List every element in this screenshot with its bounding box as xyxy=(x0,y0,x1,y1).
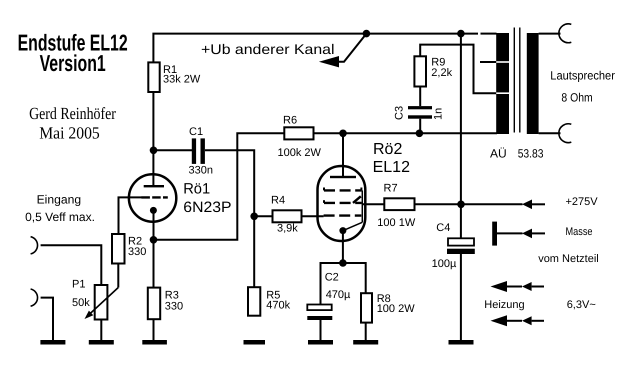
ground C2 xyxy=(308,340,333,345)
triode U Roe1 xyxy=(129,174,232,221)
wire input 2 to ground xyxy=(41,298,53,341)
author xyxy=(29,104,116,142)
node +Ub branch xyxy=(363,30,371,38)
capacitor C2 xyxy=(307,272,351,321)
svg-text:R7: R7 xyxy=(384,183,398,195)
svg-text:Mai 2005: Mai 2005 xyxy=(39,123,100,142)
node +275V supply xyxy=(457,201,465,209)
wire Roe2 cathode down xyxy=(342,233,344,263)
svg-text:6,3V~: 6,3V~ xyxy=(567,299,596,311)
svg-text:Heizung: Heizung xyxy=(484,299,524,311)
wire supply vertical xyxy=(460,34,462,239)
svg-text:50k: 50k xyxy=(72,297,90,309)
svg-text:2,2k: 2,2k xyxy=(431,67,452,79)
heater arrows row 1 xyxy=(491,281,545,292)
potentiometer P1 xyxy=(72,278,118,319)
svg-text:1n: 1n xyxy=(433,108,445,120)
svg-text:+275V: +275V xyxy=(566,196,599,208)
svg-text:C1: C1 xyxy=(189,126,203,138)
svg-text:Gerd Reinhöfer: Gerd Reinhöfer xyxy=(29,104,116,123)
wire R2 bottom to wiper xyxy=(117,264,119,288)
svg-text:3,9k: 3,9k xyxy=(277,223,298,235)
wire C1 to R4/R5 node xyxy=(205,150,254,216)
resistor R6 xyxy=(278,115,322,160)
wire C2 to ground xyxy=(320,320,322,341)
wire R7 to supply node xyxy=(415,203,462,205)
svg-text:330n: 330n xyxy=(189,165,213,177)
wire R6 to Roe2 plate net and transformer xyxy=(314,132,498,134)
node R6 plate net xyxy=(339,130,347,138)
capacitor C1 xyxy=(189,126,213,177)
wire Roe1 plate drop xyxy=(152,150,154,186)
resistor R7 xyxy=(377,183,416,229)
svg-text:C2: C2 xyxy=(325,272,339,284)
svg-text:P1: P1 xyxy=(72,278,85,290)
svg-text:+Ub anderer Kanal: +Ub anderer Kanal xyxy=(201,41,335,57)
svg-text:100 1W: 100 1W xyxy=(377,217,416,229)
wire R3 to ground xyxy=(153,319,155,341)
svg-text:Eingang: Eingang xyxy=(37,193,81,207)
speaker terminal bottom xyxy=(559,124,571,143)
node Roe1 cathode xyxy=(150,236,158,244)
wire Masse bar to arrow xyxy=(497,232,523,234)
wire cathode feedback link to R6 xyxy=(154,133,285,240)
svg-text:Lautsprecher: Lautsprecher xyxy=(550,68,615,82)
wire R9 bottom to C3 xyxy=(419,87,421,107)
svg-text:330: 330 xyxy=(165,300,183,312)
wire node to R4 xyxy=(254,215,272,217)
wire R1 bottom to plate node xyxy=(152,92,154,150)
speaker label xyxy=(550,68,615,104)
svg-text:100 2W: 100 2W xyxy=(377,303,416,315)
svg-text:Version1: Version1 xyxy=(40,50,106,76)
transformer label xyxy=(490,146,544,160)
wire P1 to ground xyxy=(100,320,102,342)
wire C3 to plate net xyxy=(419,119,421,134)
svg-text:6N23P: 6N23P xyxy=(183,199,231,216)
node R4/R5 grid net xyxy=(250,213,258,221)
arrow Masse xyxy=(522,229,532,239)
svg-text:R4: R4 xyxy=(271,194,285,206)
resistor R2 xyxy=(112,234,146,264)
wire supply node to +275V arrow xyxy=(461,203,523,205)
wire +275V tail xyxy=(532,203,546,205)
wire plate node to C1 xyxy=(153,149,192,151)
capacitor C4 xyxy=(432,222,475,270)
svg-text:8 Ohm: 8 Ohm xyxy=(561,91,592,105)
svg-text:Rö2: Rö2 xyxy=(373,141,402,158)
node supply top xyxy=(457,30,465,38)
svg-text:470k: 470k xyxy=(266,300,290,312)
resistor R5 xyxy=(248,287,291,316)
arrow +Ub anderer Kanal xyxy=(319,56,339,67)
wire g2 to R7 xyxy=(362,203,384,205)
svg-text:Rö1: Rö1 xyxy=(183,181,210,198)
wire secondary top to speaker xyxy=(539,33,561,35)
transformer core xyxy=(514,28,520,133)
svg-text:0,5 Veff max.: 0,5 Veff max. xyxy=(25,210,95,224)
ground C4 xyxy=(449,340,474,345)
node plate junction xyxy=(150,147,158,155)
wire R4 to Roe2 grid xyxy=(302,215,324,217)
ground P1 xyxy=(89,340,114,345)
svg-text:470µ: 470µ xyxy=(326,289,351,301)
ground R5 xyxy=(244,340,266,345)
input terminal 2 xyxy=(31,289,38,306)
wire Roe2 plate drop xyxy=(342,133,344,177)
capacitor C3 xyxy=(393,106,444,120)
resistor R1 xyxy=(148,62,201,92)
wire cathode node to C2 xyxy=(321,263,343,305)
speaker terminal top xyxy=(559,24,571,43)
resistor R8 xyxy=(361,293,415,323)
wire secondary bottom to speaker xyxy=(539,132,561,134)
svg-text:Masse: Masse xyxy=(566,226,593,238)
wire R8 to ground xyxy=(365,323,367,341)
ground R3 xyxy=(142,340,167,345)
wire transformer stub xyxy=(480,61,497,63)
ground R8 xyxy=(353,340,378,345)
svg-text:100k 2W: 100k 2W xyxy=(278,147,322,159)
svg-text:53.83: 53.83 xyxy=(518,146,544,160)
wire R4/R5 node down to R5 xyxy=(253,216,255,287)
wire cathode node to R8 xyxy=(343,263,366,293)
svg-text:R6: R6 xyxy=(283,115,297,127)
svg-text:C4: C4 xyxy=(436,222,450,234)
resistor R4 xyxy=(271,194,302,234)
pentode U Roe2 xyxy=(318,141,411,241)
transformer AUe primary bar xyxy=(496,33,509,134)
transformer secondary bar xyxy=(527,33,539,134)
wire top +Ub rail xyxy=(153,34,496,63)
svg-text:vom Netzteil: vom Netzteil xyxy=(538,253,599,265)
node Roe2 cathode net xyxy=(339,259,347,267)
wire input 1 to P1 xyxy=(41,245,102,285)
resistor R3 xyxy=(148,288,183,320)
wire Roe1 cathode xyxy=(153,212,155,288)
input terminal 1 xyxy=(31,237,38,254)
input label xyxy=(25,193,95,224)
svg-text:EL12: EL12 xyxy=(373,159,410,176)
node C3 plate net xyxy=(416,130,424,138)
wire Roe1 grid xyxy=(119,197,142,234)
svg-text:100µ: 100µ xyxy=(432,258,457,270)
resistor R9 xyxy=(414,56,452,86)
Masse bar xyxy=(492,222,497,246)
heater arrows row 2 xyxy=(491,315,545,326)
svg-text:AÜ: AÜ xyxy=(490,146,507,160)
svg-text:330: 330 xyxy=(128,246,146,258)
wire +Ub branch diagonal xyxy=(338,34,366,62)
wire R9 top to transformer tap xyxy=(420,45,497,94)
ground input 2 xyxy=(40,340,65,345)
svg-text:C3: C3 xyxy=(393,106,405,120)
wire C4 to ground xyxy=(460,254,462,341)
arrow +275V xyxy=(522,200,532,210)
wire Masse tail xyxy=(532,232,546,234)
title xyxy=(18,29,128,76)
svg-text:33k 2W: 33k 2W xyxy=(163,74,201,86)
